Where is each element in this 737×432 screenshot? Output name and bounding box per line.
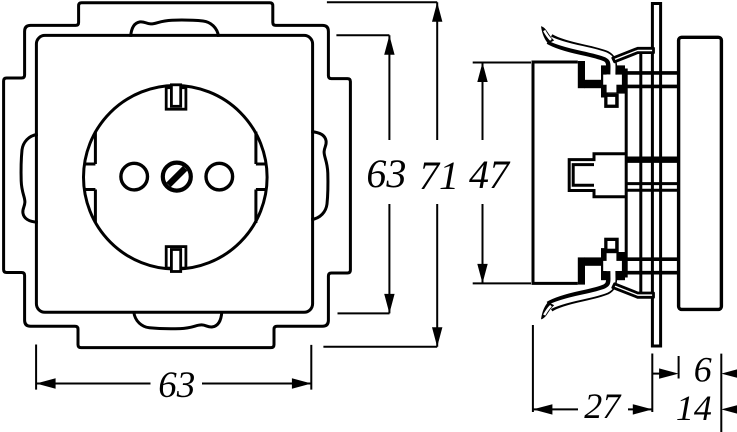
- mounting face vertical: [625, 69, 628, 278]
- expanding claw (spring) band: [550, 271, 612, 307]
- socket pot inner walls: [573, 165, 594, 186]
- right side-contact notch lines: [256, 164, 267, 190]
- top clip bump on cover plate: [131, 20, 219, 37]
- extension lines for bottom dim 63: [36, 345, 311, 390]
- claw mount cutouts: [603, 68, 622, 105]
- screw slot: [169, 168, 186, 185]
- bottom earth contact inner tab: [171, 250, 180, 272]
- bottom claw assembly (mirrored): [541, 238, 679, 320]
- claw mount block: [578, 238, 625, 285]
- top claw assembly: [541, 26, 679, 108]
- socket pot outer profile: [569, 154, 626, 197]
- svg-text:71: 71: [419, 153, 459, 198]
- arrowheads front dims: [384, 35, 394, 55]
- dimension line 27: [533, 408, 652, 410]
- right side-contact chord: [254, 132, 257, 223]
- fixing boss lines: [628, 259, 679, 273]
- right clip bump on cover plate: [311, 132, 328, 220]
- dimension line 63 vertical: [388, 35, 390, 313]
- bottom clip bump on cover plate: [134, 312, 222, 329]
- extension line for dim 6 right tick: [678, 356, 680, 379]
- dimension line 47: [482, 63, 484, 284]
- dimension line 63 bottom: [36, 383, 311, 385]
- fixing boss lines: [628, 73, 679, 87]
- svg-text:47: 47: [469, 152, 511, 197]
- extension line for dim 6 left: [653, 373, 665, 375]
- extension lines for vertical dim 71: [323, 2, 437, 347]
- left clip bump on cover plate: [21, 134, 38, 222]
- extension lines for dim 47: [473, 63, 531, 284]
- support frame (front view, cross-shaped mounting ring): [4, 3, 351, 348]
- svg-text:27: 27: [584, 386, 622, 426]
- svg-text:63: 63: [366, 151, 406, 196]
- svg-text:14: 14: [676, 388, 712, 428]
- cover plate (rounded square): [36, 35, 312, 312]
- support ring plate (flange): [652, 4, 660, 347]
- claw tip beak: [541, 26, 554, 43]
- centre boss upper lines: [626, 156, 678, 162]
- left pin hole: [121, 163, 148, 190]
- extension lines for dim 27: [533, 325, 652, 412]
- claw tip beak: [541, 302, 554, 319]
- support ring web vertical: [639, 53, 642, 297]
- bottom earth contact outer slot: [166, 247, 186, 269]
- left side-contact notch lines: [84, 164, 95, 190]
- central cover plate block (side view): [679, 37, 722, 309]
- centre fixing screw: [163, 163, 191, 191]
- dimension line 71 vertical: [436, 2, 438, 347]
- top earth contact outer slot: [166, 88, 186, 110]
- claw support web: [613, 284, 654, 298]
- right pin hole: [206, 163, 233, 190]
- svg-text:63: 63: [158, 365, 195, 406]
- centre boss lower lines: [626, 184, 678, 191]
- arrowheads side dims: [477, 63, 487, 83]
- insert body outline (side view): [533, 62, 578, 283]
- claw mount cutouts: [603, 241, 622, 278]
- svg-text:6: 6: [694, 350, 712, 390]
- claw mount block: [578, 61, 625, 108]
- claw support web: [613, 48, 654, 62]
- extension line at cover plate face: [720, 354, 722, 432]
- socket recess circle: [84, 86, 268, 270]
- expanding claw (spring) band: [550, 39, 612, 75]
- extension lines for vertical dim 63: [336, 35, 389, 313]
- left side-contact chord: [94, 132, 97, 223]
- top earth contact inner tab: [171, 85, 180, 107]
